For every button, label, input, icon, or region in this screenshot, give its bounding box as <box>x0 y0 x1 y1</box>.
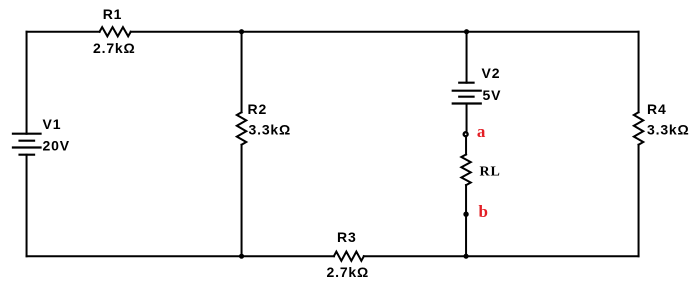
node junction bottom RL branch <box>463 254 468 259</box>
svg-text:V2: V2 <box>482 65 501 81</box>
wire bottom rail right segment (junction to R4) <box>466 255 639 257</box>
svg-text:R4: R4 <box>647 101 667 117</box>
svg-text:RL: RL <box>480 165 501 180</box>
svg-text:3.3kΩ: 3.3kΩ <box>249 121 291 137</box>
wire V2 to node a <box>466 104 468 135</box>
svg-text:2.7kΩ: 2.7kΩ <box>93 40 135 56</box>
resistor RL <box>461 155 500 186</box>
node junction top R2 <box>239 29 244 34</box>
svg-text:5V: 5V <box>483 87 502 103</box>
svg-text:b: b <box>479 202 489 221</box>
wire bottom rail segment (R3 to V2-branch junction) <box>364 255 466 257</box>
svg-text:3.3kΩ: 3.3kΩ <box>647 121 689 137</box>
wire bottom rail left segment (V1 to R2 junction) <box>27 255 242 257</box>
wire right rail lower (R4 to bottom rail) <box>638 145 640 257</box>
resistor R1 <box>93 6 135 56</box>
svg-text:20V: 20V <box>43 138 70 154</box>
node junction bottom R2 <box>239 254 244 259</box>
wire node b to bottom rail <box>465 214 467 256</box>
wire V2 branch upper (top rail to V2) <box>466 32 468 83</box>
wire left rail lower (V1 down to bottom rail) <box>26 155 28 257</box>
svg-text:V1: V1 <box>43 116 62 132</box>
battery V2 5V <box>453 65 502 103</box>
resistor R2 <box>237 32 291 257</box>
svg-text:2.7kΩ: 2.7kΩ <box>327 264 369 280</box>
wire top rail right segment (V2 junction to R4) <box>467 31 639 33</box>
wire right rail upper (top rail to R4) <box>638 32 640 113</box>
battery V1 20V <box>13 116 70 155</box>
svg-text:R1: R1 <box>103 6 123 22</box>
node b <box>463 202 488 221</box>
wire top rail left segment (V1 to R1) <box>27 31 100 33</box>
node a <box>464 122 487 141</box>
node junction top V2 <box>464 29 469 34</box>
wire top rail middle segment (R1 to R2 junction) <box>131 31 242 33</box>
svg-text:R3: R3 <box>337 229 357 245</box>
wire top rail segment (R2 junction to V2 junction) <box>242 31 467 33</box>
wire node a to RL <box>465 134 467 154</box>
resistor R4 <box>634 101 690 145</box>
wire bottom rail segment (R2 junction to R3) <box>242 255 334 257</box>
svg-text:a: a <box>477 122 486 141</box>
wire RL to node b <box>465 185 467 214</box>
wire left rail upper (top rail down to V1) <box>26 32 28 134</box>
svg-text:R2: R2 <box>248 101 267 117</box>
resistor R3 <box>327 229 369 280</box>
